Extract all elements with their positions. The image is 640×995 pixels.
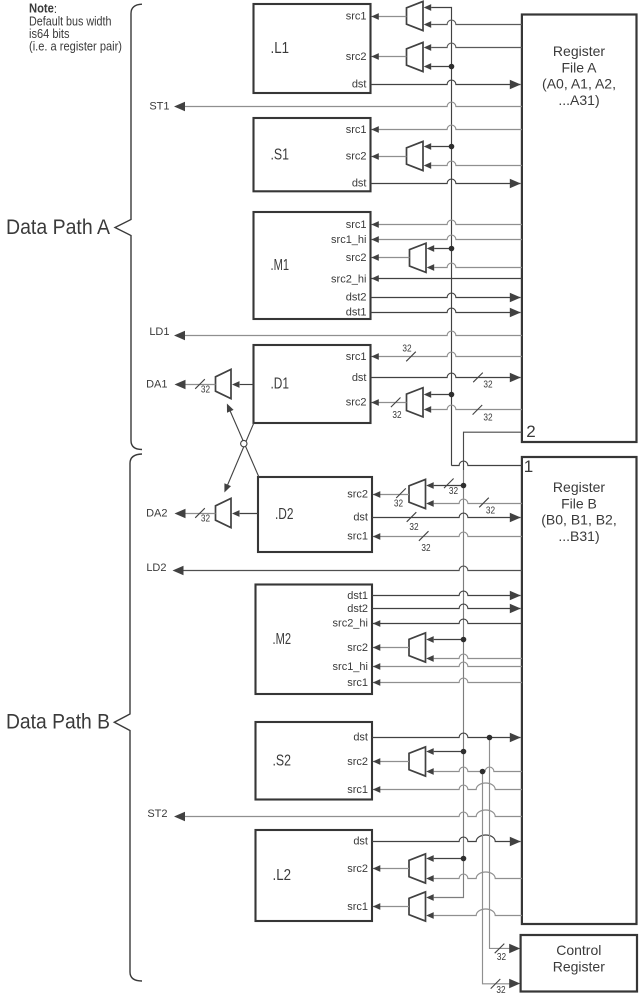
wire LD2 <box>146 562 522 575</box>
svg-text:src1_hi: src1_hi <box>333 661 368 673</box>
wire .D1 dst to RFA <box>371 373 521 391</box>
functional unit .S2 <box>256 722 373 800</box>
wire .L1 src1 mux bottom input from RFA <box>424 20 522 28</box>
svg-text:32: 32 <box>483 412 492 423</box>
svg-text:dst: dst <box>353 731 368 743</box>
Data Path B brace <box>114 454 142 981</box>
svg-text:.L1: .L1 <box>271 40 290 57</box>
svg-text:dst1: dst1 <box>347 590 368 602</box>
wire .D2 src1 from RFB <box>373 531 522 554</box>
svg-text:DA1: DA1 <box>146 378 167 390</box>
control register feed vertical V2 from .S2 dst <box>487 735 521 963</box>
svg-text:dst2: dst2 <box>346 292 367 304</box>
control register feed vertical V1 from .S2 src2 mux line <box>480 769 521 995</box>
svg-text:DA2: DA2 <box>146 507 167 519</box>
svg-text:dst: dst <box>352 178 367 190</box>
svg-text:LD1: LD1 <box>149 326 169 338</box>
Control Register box <box>521 935 637 992</box>
wire .D2 src2 from mux <box>373 488 409 509</box>
svg-text:Register: Register <box>553 958 605 974</box>
wire .L2 src2 from mux <box>373 865 409 872</box>
bus A vertical / 1X cross path <box>424 4 522 466</box>
wire .M1 src2 from mux <box>371 254 409 261</box>
wire .L1 dst to RFA <box>371 80 521 90</box>
functional unit .M1 <box>254 212 371 319</box>
wire .D1 src2 mux bottom input from RFA <box>424 405 522 423</box>
wire .L2 src1 from mux <box>373 903 409 910</box>
label 1 cross path node <box>524 457 533 476</box>
svg-text:src2_hi: src2_hi <box>331 273 366 285</box>
svg-text:src1: src1 <box>347 784 368 796</box>
Data Path A label <box>6 216 110 239</box>
bus B vertical <box>426 470 463 901</box>
svg-text:32: 32 <box>497 952 506 963</box>
svg-text:...B31): ...B31) <box>558 528 599 544</box>
functional unit .L1 <box>254 4 371 93</box>
wire .S1 src2 from mux <box>371 153 406 160</box>
Data Path B label <box>6 710 110 733</box>
svg-text:dst: dst <box>352 78 367 90</box>
svg-text:Register: Register <box>553 479 605 495</box>
wire .M2 src2_hi from RFB <box>373 619 522 627</box>
svg-text:.M1: .M1 <box>271 257 290 274</box>
functional unit .D2 <box>258 477 372 552</box>
wire .S2 src2 mux bottom input from RFB <box>426 767 522 775</box>
svg-text:(B0, B1, B2,: (B0, B1, B2, <box>541 512 616 528</box>
svg-text:32: 32 <box>449 486 458 497</box>
svg-text:32: 32 <box>483 379 492 390</box>
svg-text:src1_hi: src1_hi <box>331 234 366 246</box>
wire ST2 <box>147 808 522 821</box>
crossover loop of DA diagonals <box>241 440 247 446</box>
wire .S2 src1 from RFB <box>373 783 522 793</box>
svg-text:ST1: ST1 <box>149 100 169 112</box>
wire .S2 src2 mux top stub from bus B <box>426 748 466 755</box>
mux DA2 <box>216 498 232 527</box>
svg-text:.S2: .S2 <box>273 752 292 769</box>
Register File B box <box>522 457 637 924</box>
mux .M1 src2 <box>410 243 427 272</box>
wire cross diagonal .D1 to DA2 mux <box>224 423 254 493</box>
wire .M2 src1 from RFB <box>373 678 522 686</box>
wire .M1 src1 from RFA <box>371 220 522 228</box>
functional unit .M2 <box>256 585 373 695</box>
wire .L1 src2 mux top input from RFA <box>424 43 522 51</box>
svg-text:1: 1 <box>524 457 533 476</box>
svg-text:.D1: .D1 <box>271 376 290 393</box>
svg-text:src2: src2 <box>346 51 367 63</box>
svg-text:src2: src2 <box>346 150 367 162</box>
svg-text:dst: dst <box>353 835 368 847</box>
Data Path A brace <box>115 4 142 449</box>
wire .D2 src2 mux bottom input from RFB <box>426 498 522 517</box>
svg-text:src2: src2 <box>347 756 368 768</box>
wire .L1 src1 mux top input (bus A top) <box>0 0 1 1</box>
svg-text:.S1: .S1 <box>271 146 290 163</box>
wire .D1 src1 from RFA <box>371 344 522 362</box>
svg-text:32: 32 <box>394 498 403 509</box>
svg-text:.L2: .L2 <box>273 867 292 884</box>
svg-text:.M2: .M2 <box>273 631 292 648</box>
svg-text:src1: src1 <box>346 351 367 363</box>
svg-text:src1: src1 <box>347 901 368 913</box>
svg-text:32: 32 <box>486 505 495 516</box>
svg-text:2: 2 <box>526 422 535 441</box>
wire .M2 src2 from mux <box>373 644 409 651</box>
svg-text:32: 32 <box>402 344 411 355</box>
svg-text:src1: src1 <box>346 10 367 22</box>
wire .M1 dst1 to RFA <box>371 308 521 318</box>
wire cross diagonal .D2 to DA1 mux <box>227 404 259 478</box>
wire .M1 src2_hi from RFA (no hop) <box>371 275 522 282</box>
mux DA1 <box>216 369 232 398</box>
svg-text:32: 32 <box>421 543 430 554</box>
wire .S1 src1 from RFA <box>371 125 522 133</box>
mux .L2 src1 <box>409 892 426 921</box>
wire .L2 dst to RFB <box>372 835 521 846</box>
svg-text:File A: File A <box>561 59 597 75</box>
functional unit .D1 <box>254 345 371 423</box>
wire .M2 src2 mux top stub from bus B <box>426 636 466 643</box>
wire .L2 src1 mux bottom input from RFB <box>426 909 522 919</box>
wire .M2 dst2 to RFB <box>372 604 521 614</box>
svg-text:src1: src1 <box>346 219 367 231</box>
svg-text:src2: src2 <box>346 252 367 264</box>
wire .M1 src1_hi from RFA <box>371 235 522 243</box>
wire .M2 src2 mux bottom input from RFB <box>426 654 522 662</box>
wire .D1 src2 mux top stub from bus A <box>424 391 455 398</box>
svg-text:...A31): ...A31) <box>558 92 599 108</box>
wire DA2 output <box>146 507 215 524</box>
wire .L1 src2 from mux <box>371 53 406 60</box>
wire .M2 src1_hi from RFB <box>373 662 522 670</box>
svg-text:.D2: .D2 <box>275 506 294 523</box>
svg-text:(i.e. a register pair): (i.e. a register pair) <box>29 38 122 53</box>
mux .L1 src2 <box>407 42 424 71</box>
wire .D1 src2 from mux <box>371 398 406 422</box>
note text <box>29 1 122 54</box>
wire .L1 src2 mux bottom stub from bus A <box>424 63 455 70</box>
svg-text:src1: src1 <box>347 677 368 689</box>
wire .M1 src2 mux top stub from bus A <box>427 245 455 252</box>
wire .M1 src2 mux bottom input from RFA <box>427 263 522 271</box>
svg-text:src2: src2 <box>347 863 368 875</box>
wire .D2 src2 mux top stub from bus B <box>426 479 466 498</box>
mux .D1 src2 <box>407 388 424 417</box>
wire .L1 src1 from mux <box>371 13 406 20</box>
svg-text:Data Path B: Data Path B <box>6 710 110 733</box>
wire .S1 src2 mux bottom input from RFA <box>424 161 522 169</box>
svg-text:src1: src1 <box>346 124 367 136</box>
svg-text:32: 32 <box>496 985 505 995</box>
functional unit .S1 <box>254 118 371 191</box>
svg-text:dst: dst <box>352 372 367 384</box>
wire DA2 mux input from .D2 <box>232 510 258 517</box>
wire .S2 dst to RFB <box>372 733 521 743</box>
wire LD1 <box>149 326 522 340</box>
svg-text:dst2: dst2 <box>347 603 368 615</box>
mux .S2 src2 <box>409 747 426 776</box>
svg-text:Data Path A: Data Path A <box>6 216 110 239</box>
wire DA1 output <box>146 378 215 395</box>
svg-text:32: 32 <box>392 410 401 421</box>
svg-text:dst: dst <box>353 511 368 523</box>
svg-text:32: 32 <box>201 514 210 525</box>
Register File A box <box>522 15 637 443</box>
svg-text:32: 32 <box>201 385 210 396</box>
svg-text:ST2: ST2 <box>147 808 167 820</box>
wire .S2 src2 from mux <box>373 758 409 765</box>
mux .D2 src2 <box>409 479 426 508</box>
wire .L2 src2 mux bottom input from RFB <box>426 872 522 882</box>
svg-text:src2_hi: src2_hi <box>333 617 368 629</box>
svg-text:LD2: LD2 <box>146 562 166 574</box>
svg-text:32: 32 <box>409 522 418 533</box>
svg-text:src2: src2 <box>346 397 367 409</box>
svg-text:src2: src2 <box>347 642 368 654</box>
mux .L1 src1 <box>407 1 424 30</box>
wire .S1 dst to RFA <box>371 179 521 189</box>
svg-text:src1: src1 <box>347 530 368 542</box>
svg-text:File B: File B <box>561 495 597 511</box>
svg-text:Register: Register <box>553 43 605 59</box>
mux .S1 src2 <box>407 141 424 170</box>
wire DA1 mux input from .D1 <box>232 381 254 388</box>
svg-text:Control: Control <box>556 942 601 958</box>
wire .S1 src2 mux top stub from bus A <box>424 143 455 150</box>
mux .L2 src2 <box>409 854 426 883</box>
wire .L2 src2 mux top stub from bus B <box>426 855 466 862</box>
mux .M2 src2 <box>409 633 426 662</box>
functional unit .L2 <box>256 830 373 921</box>
wire .D2 dst to RFB <box>372 512 521 533</box>
wire .M2 dst1 to RFB <box>372 591 521 601</box>
wire ST1 <box>149 100 522 112</box>
label 2 cross path node <box>526 422 535 441</box>
svg-text:src2: src2 <box>347 488 368 500</box>
2X cross path from RFA <box>464 432 522 470</box>
svg-text:dst1: dst1 <box>346 307 367 319</box>
svg-text:(A0, A1, A2,: (A0, A1, A2, <box>542 76 616 92</box>
wire .M1 dst2 to RFA <box>371 293 521 303</box>
